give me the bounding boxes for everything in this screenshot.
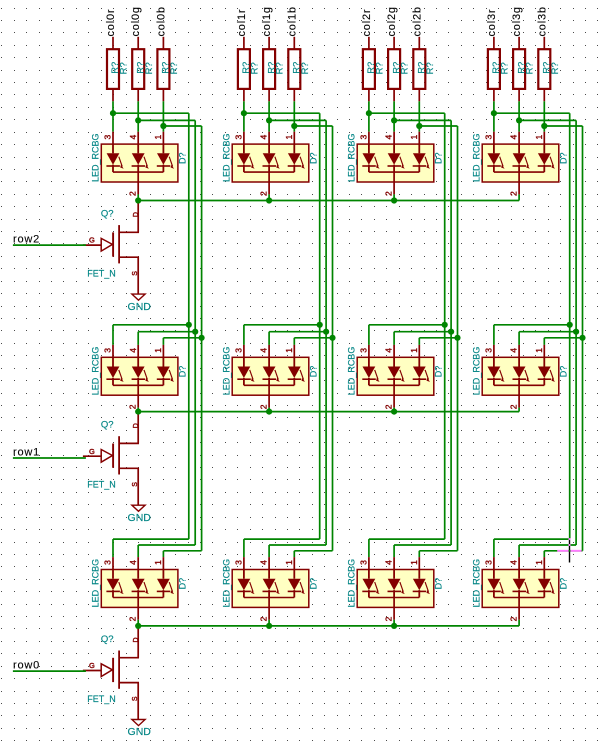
svg-text:col2g: col2g xyxy=(386,6,398,36)
svg-text:col2r: col2r xyxy=(361,9,373,37)
svg-text:col1r: col1r xyxy=(236,9,248,37)
svg-text:col1g: col1g xyxy=(261,6,273,36)
svg-text:row1: row1 xyxy=(13,446,40,458)
svg-text:col0b: col0b xyxy=(155,6,167,36)
svg-text:col3r: col3r xyxy=(486,9,498,37)
svg-text:col0r: col0r xyxy=(105,9,117,37)
svg-text:row2: row2 xyxy=(13,234,40,246)
svg-text:col3g: col3g xyxy=(511,6,523,36)
svg-text:col1b: col1b xyxy=(286,6,298,36)
svg-text:col3b: col3b xyxy=(536,6,548,36)
svg-text:col0g: col0g xyxy=(130,6,142,36)
svg-text:col2b: col2b xyxy=(411,6,423,36)
svg-text:row0: row0 xyxy=(13,660,40,672)
